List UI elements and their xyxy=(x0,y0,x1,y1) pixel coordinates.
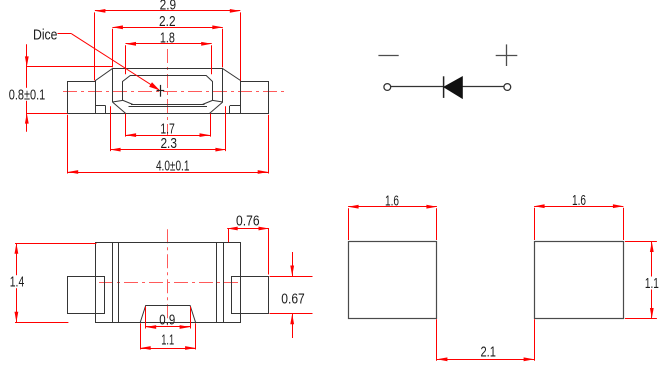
side view: bottom notch xyxy=(140,306,195,323)
diode triangle xyxy=(444,77,462,98)
dimension 0.8±0.1 line xyxy=(26,44,28,132)
pad dimension 1.6 left line xyxy=(348,206,437,208)
pad layout: right pad xyxy=(535,242,624,319)
dimension 1.4 bottom extension xyxy=(15,322,68,324)
svg-text:Dice: Dice xyxy=(33,26,58,43)
top view: bottom flange line xyxy=(68,113,269,115)
dimension 2.2 line xyxy=(112,27,222,29)
top view: right flange tick xyxy=(229,106,231,113)
side view: right inner wall line 2 xyxy=(223,243,225,323)
polarity minus sign xyxy=(378,55,398,57)
top view: right reflector wall edge xyxy=(222,68,224,102)
dimension 1.4 top extension xyxy=(15,243,96,245)
top view: cavity opening octagon xyxy=(123,76,213,101)
svg-text:1.1: 1.1 xyxy=(645,276,659,292)
dimension 0.67 bottom extension xyxy=(270,313,313,315)
top view: right terminal wing xyxy=(241,82,269,114)
pad layout: left pad xyxy=(349,242,437,319)
anode terminal circle xyxy=(504,84,511,91)
top view: body bottom edge center segment xyxy=(129,106,208,108)
svg-text:1.8: 1.8 xyxy=(160,31,175,47)
dimension 0.76 right extension xyxy=(268,229,270,275)
side view: right lead xyxy=(232,277,269,314)
dimension 1.8 line xyxy=(126,43,212,45)
top view: vertical centerline xyxy=(167,49,169,135)
dimension 1.8 right extension xyxy=(211,45,213,74)
svg-text:1.1: 1.1 xyxy=(161,332,174,348)
dimension 1.4 line xyxy=(16,243,18,322)
dimension 0.8±0.1 bottom extension xyxy=(27,113,68,115)
dimension 2.3 left extension xyxy=(110,106,112,151)
top view: cavity bottom edge xyxy=(131,104,205,106)
dimension 2.2 left extension xyxy=(112,29,114,68)
top view: left terminal wing xyxy=(68,82,96,114)
pad dimension 1.6 left-left extension xyxy=(348,208,350,240)
svg-text:2.2: 2.2 xyxy=(159,14,176,30)
side view: body rectangle xyxy=(96,243,241,323)
dimension 1.7 left extension xyxy=(125,114,127,137)
dimension 2.9 left extension xyxy=(94,12,96,80)
polarity plus sign xyxy=(496,55,518,57)
top view: bottom-right chamfer connector xyxy=(213,100,223,102)
wire cathode side xyxy=(391,86,444,88)
dimension 0.9 left extension xyxy=(145,307,147,329)
top view: bottom-left chamfer connector xyxy=(112,100,123,102)
top view: bottom-right flange chamfer diagonal xyxy=(210,102,223,113)
dimension 2.9 right extension xyxy=(240,12,242,80)
svg-text:1.6: 1.6 xyxy=(385,194,399,210)
dimension 2.2 right extension xyxy=(222,29,224,68)
pad dimension 1.1 line xyxy=(651,242,653,319)
svg-text:1.6: 1.6 xyxy=(572,193,586,209)
dimension 1.4 text xyxy=(8,275,26,288)
top view: horizontal centerline xyxy=(63,91,288,93)
dimension 0.9 line xyxy=(146,326,190,328)
dimension 1.7 right extension xyxy=(210,114,212,137)
pad dimension 1.6 right line xyxy=(534,206,623,208)
dimension 0.8±0.1 top extension xyxy=(27,66,113,68)
svg-text:1.4: 1.4 xyxy=(10,274,25,290)
top view: body bottom edge left segment xyxy=(95,105,105,107)
svg-text:2.3: 2.3 xyxy=(160,136,177,152)
dimension 4.0±0.1 left extension xyxy=(67,115,69,174)
top view: bottom-right cavity chamfer diagonal xyxy=(202,100,212,104)
dimension 0.76 line xyxy=(227,228,269,230)
svg-text:0.76: 0.76 xyxy=(236,214,260,230)
top view: bottom-left flange chamfer diagonal xyxy=(112,102,125,113)
side view: left inner wall line 2 xyxy=(118,243,120,323)
cathode terminal circle xyxy=(384,84,391,91)
dimension 1.1 right extension xyxy=(195,323,197,349)
side view: left lead xyxy=(68,277,105,314)
dimension 1.1 left extension xyxy=(140,323,142,349)
dimension 0.76 left extension xyxy=(228,229,230,243)
top view: body outline with chamfered top corners xyxy=(96,69,241,106)
pad dimension 2.1 right extension xyxy=(534,319,536,361)
dimension 0.9 right extension xyxy=(190,307,192,329)
leader line from Dice label xyxy=(58,33,72,35)
svg-text:0.67: 0.67 xyxy=(281,291,305,307)
svg-text:4.0±0.1: 4.0±0.1 xyxy=(156,158,190,174)
side view: right inner wall line 1 xyxy=(216,243,218,323)
dimension 0.67 lower arrow xyxy=(292,314,294,338)
side view: left inner wall line 1 xyxy=(112,243,114,323)
dimension 2.9 line xyxy=(95,10,240,12)
pad dimension 1.1 top extension xyxy=(625,241,657,243)
dimension 2.3 line xyxy=(110,149,226,151)
svg-text:0.9: 0.9 xyxy=(159,312,175,328)
pad dimension 2.1 line xyxy=(437,359,534,361)
top view: bottom-left cavity chamfer diagonal xyxy=(123,100,133,104)
diode cathode bar xyxy=(443,76,445,98)
top view: dice cross mark xyxy=(160,85,162,97)
pad dimension 1.6 right-right extension xyxy=(623,208,625,240)
svg-text:0.8±0.1: 0.8±0.1 xyxy=(9,88,46,104)
dimension 1.1 line xyxy=(140,348,195,350)
top view: body bottom edge right segment xyxy=(230,105,241,107)
wire anode side xyxy=(462,86,504,88)
top view: left reflector wall edge xyxy=(112,68,114,102)
dimension 4.0±0.1 right extension xyxy=(268,115,270,174)
top view: left flange tick xyxy=(105,106,107,113)
dimension 1.8 left extension xyxy=(125,45,127,74)
dimension 4.0±0.1 line xyxy=(68,172,269,174)
svg-text:2.9: 2.9 xyxy=(160,0,177,14)
pad dimension 2.1 left extension xyxy=(436,319,438,361)
dimension 2.3 right extension xyxy=(225,106,227,151)
svg-text:2.1: 2.1 xyxy=(480,345,496,361)
side view: vertical centerline xyxy=(167,229,169,327)
pad dimension 1.1 bottom extension xyxy=(625,318,657,320)
pad dimension 1.1 text xyxy=(643,277,661,290)
pad dimension 1.6 right-left extension xyxy=(534,208,536,240)
dimension 0.67 upper arrow xyxy=(292,252,294,276)
pad dimension 1.6 left-right extension xyxy=(436,208,438,240)
dimension 0.67 top extension xyxy=(270,276,313,278)
dimension 1.7 line xyxy=(126,135,210,137)
side view: horizontal centerline xyxy=(99,282,241,284)
